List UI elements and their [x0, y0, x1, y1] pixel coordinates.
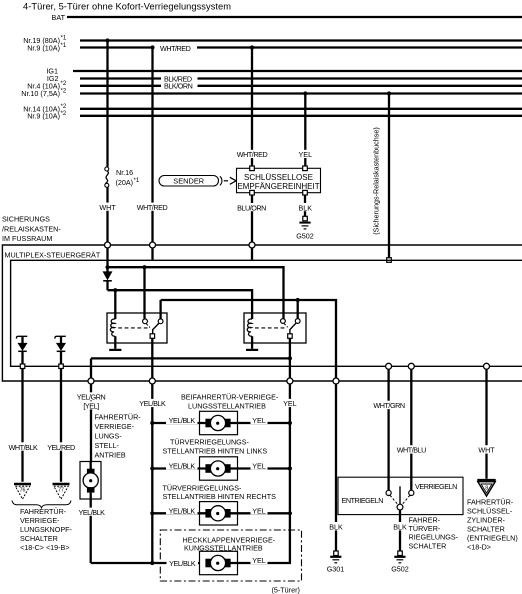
svg-text:BLK/ORN: BLK/ORN [164, 82, 193, 91]
wire H5 to YEL/GRN exit [91, 357, 290, 359]
wire WHT vertical from Nr.19 bus [106, 41, 108, 167]
node Nr.14 (10A)*2 bus [80, 108, 522, 110]
actuator passenger door motor [200, 411, 238, 434]
svg-text:YEL/RED: YEL/RED [47, 443, 75, 452]
svg-text:Nr.10 (7,5A): Nr.10 (7,5A) [21, 89, 60, 98]
wire to rear left actuator [152, 467, 205, 469]
svg-text:VERRIEGELN: VERRIEGELN [415, 482, 457, 491]
door lock switch box FAHRERTUERVERRIEGELUNGSSCHALTER [338, 477, 463, 514]
svg-text:FAHRERTÜR-: FAHRERTÜR- [95, 413, 142, 422]
wire relay2 contact B drop [297, 300, 299, 319]
svg-text:76: 76 [20, 488, 26, 494]
wire BLK to G502 (switch) [399, 510, 401, 551]
wire relay1 coil drop [114, 290, 116, 319]
svg-text:*2: *2 [61, 81, 67, 87]
relay K1 coil [110, 319, 115, 336]
relay K1 coil ground bar [109, 349, 121, 351]
svg-text:8: 8 [485, 485, 488, 491]
svg-text:WHT/BLU: WHT/BLU [397, 446, 426, 455]
relay K2 coil ground bar [246, 349, 258, 351]
wire WHT/RED to receiver unit [251, 48, 253, 168]
svg-text:IM FUSSRAUM: IM FUSSRAUM [2, 234, 52, 243]
wire WHT to key cylinder switch [485, 369, 487, 479]
svg-text:FAHRERTÜR-: FAHRERTÜR- [20, 507, 67, 516]
wire WHT/BLK from diode D2 to knob switch [21, 369, 23, 482]
svg-text:TÜRVERRIEGELUNGS-: TÜRVERRIEGELUNGS- [170, 438, 250, 447]
svg-text:YEL: YEL [252, 416, 266, 425]
wire H1 +12V rail to relay contacts [108, 267, 284, 318]
svg-text:VERRIEGE-: VERRIEGE- [20, 516, 60, 525]
ground G502 (receiver) [303, 216, 308, 221]
wire WHT/GRN to door lock switch [387, 369, 389, 490]
diode D3 [55, 336, 66, 338]
svg-text:BAT: BAT [52, 13, 66, 22]
svg-text:WHT/GRN: WHT/GRN [373, 401, 404, 410]
actuator tailgate motor [200, 551, 238, 574]
wire BLK to G301 [335, 384, 337, 551]
svg-text:WHT/BLK: WHT/BLK [9, 443, 38, 452]
svg-text:(Sicherungs-Relaiskastenbuchse: (Sicherungs-Relaiskastenbuchse) [372, 127, 381, 234]
svg-text:SCHLÜSSELLOSE: SCHLÜSSELLOSE [244, 173, 313, 182]
relay K2 switch arm [290, 323, 296, 334]
svg-text:ANTRIEB: ANTRIEB [95, 451, 126, 460]
svg-text:<18-D>: <18-D> [467, 543, 491, 552]
svg-text:YEL/BLK: YEL/BLK [169, 506, 196, 515]
actuator rear right motor [200, 502, 238, 525]
svg-text:*2: *2 [61, 111, 67, 117]
switch common [397, 504, 403, 510]
switch arm neutral [399, 486, 401, 504]
svg-text:/RELAISKASTEN-: /RELAISKASTEN- [2, 224, 61, 233]
relay K2 box [244, 313, 306, 343]
svg-text:(20A): (20A) [116, 178, 134, 187]
wire WHT/RED vertical left [151, 48, 153, 243]
svg-text:*2: *2 [61, 89, 67, 95]
node IG1 bus [73, 70, 522, 72]
wire H4 ground rail [161, 300, 336, 378]
wire YEL/GRN [YEL] to driver door actuator [90, 384, 92, 462]
relay K1 box [107, 313, 167, 343]
wire YEL/BLK bus [151, 384, 153, 563]
svg-text:SICHERUNGS: SICHERUNGS [2, 215, 50, 224]
node Nr.19 (80A)*1 bus [80, 39, 522, 41]
svg-text:RIEGELUNGS-: RIEGELUNGS- [409, 533, 459, 542]
svg-text:G502: G502 [391, 565, 409, 574]
svg-text:*2: *2 [61, 104, 67, 110]
svg-text:STELLANTRIEB HINTEN LINKS: STELLANTRIEB HINTEN LINKS [163, 446, 268, 455]
connector circles on outer box bottom edge [88, 378, 94, 384]
node Nr.4 (10A)*2 bus [80, 85, 522, 87]
wire WHT into unit, node to diode [106, 248, 108, 272]
connector triangle 8 key cylinder [477, 479, 495, 482]
relay K2 contacts [281, 319, 286, 324]
relay K2 coil [247, 319, 252, 336]
wire YEL from Nr.10 bus to receiver unit [304, 94, 306, 168]
relay K1 contacts [143, 319, 148, 324]
svg-text:SENDER: SENDER [173, 177, 204, 186]
svg-text:BEIFAHRERTÜR-VERRIEGE-: BEIFAHRERTÜR-VERRIEGE- [181, 393, 279, 402]
svg-text:WHT/RED: WHT/RED [137, 203, 168, 212]
svg-text:(ENTRIEGELN): (ENTRIEGELN) [467, 534, 518, 543]
connector triangle 77 [53, 483, 70, 486]
actuator rear left motor [200, 457, 238, 480]
svg-text:STELLANTRIEB HINTEN RECHTS: STELLANTRIEB HINTEN RECHTS [163, 492, 277, 501]
wire BLK to G502 [304, 195, 306, 216]
svg-text:SCHLÜSSEL-: SCHLÜSSEL- [467, 507, 513, 516]
transmitter SENDER [159, 176, 219, 187]
wire YEL bus [230, 384, 290, 563]
relay K1 switch arm [153, 323, 159, 333]
svg-text:Nr.16: Nr.16 [116, 168, 133, 177]
pin square at inner box top [387, 258, 392, 263]
svg-text:*1: *1 [61, 43, 67, 49]
svg-text:WHT/RED: WHT/RED [160, 44, 191, 53]
svg-text:YEL: YEL [252, 462, 266, 471]
node Nr.9 (10A)*2 bus [80, 115, 522, 117]
ground G502 (switch) [398, 551, 403, 556]
node BAT bus [67, 16, 522, 18]
svg-text:YEL: YEL [283, 399, 297, 408]
svg-text:YEL/BLK: YEL/BLK [169, 462, 196, 471]
svg-text:Nr.9 (10A): Nr.9 (10A) [27, 44, 60, 53]
svg-text:LUNGS-: LUNGS- [95, 432, 123, 441]
svg-text:FAHRER-: FAHRER- [409, 515, 441, 524]
wire (Sicherungs-Relaiskastenbuchse) from Nr.10 bus [388, 94, 390, 259]
svg-text:SCHALTER: SCHALTER [20, 534, 58, 543]
wire stubs into inner box [153, 248, 253, 260]
svg-text:VERRIEGE-: VERRIEGE- [95, 422, 135, 431]
label YEL tailgate [251, 556, 268, 564]
svg-text:4-Türer, 5-Türer ohne Kofort-V: 4-Türer, 5-Türer ohne Kofort-Verriegelun… [23, 2, 231, 12]
node Nr.9 (10A)*1 bus [80, 46, 522, 48]
node IG2 bus [80, 77, 522, 79]
relay K1 common pin [150, 334, 155, 339]
svg-text:BLK: BLK [329, 523, 343, 532]
wire rear left actuator right YEL [230, 467, 290, 469]
svg-text:YEL/BLK: YEL/BLK [169, 416, 196, 425]
wire WHT/BLU to door lock switch [410, 369, 412, 490]
svg-text:BLK: BLK [299, 203, 313, 212]
connector circles on inner box bottom edge [386, 363, 392, 369]
ground G301 [334, 551, 339, 556]
diode D1 [103, 272, 112, 280]
svg-text:YEL: YEL [252, 556, 266, 565]
fuse Nr.16 (20A)*1 [105, 167, 109, 171]
wire WHT continues to multiplex unit [106, 187, 108, 242]
svg-text:BLK: BLK [393, 523, 407, 532]
svg-text:LUNGSSTELLANTRIEB: LUNGSSTELLANTRIEB [188, 401, 266, 410]
svg-text:*1: *1 [61, 36, 67, 42]
svg-text:BLU/ORN: BLU/ORN [237, 203, 266, 212]
svg-text:WHT/RED: WHT/RED [237, 150, 268, 159]
svg-text:G301: G301 [327, 565, 345, 574]
svg-text:ENTRIEGELN: ENTRIEGELN [342, 496, 384, 505]
wire to rear right actuator [152, 512, 205, 514]
svg-text:<18-C> <19-B>: <18-C> <19-B> [20, 543, 70, 552]
svg-text:YEL/BLK: YEL/BLK [169, 559, 196, 568]
brace under knob switch connectors [12, 501, 71, 508]
svg-text:STELL-: STELL- [95, 441, 120, 450]
wire relay1 contact B to H4 [159, 300, 161, 319]
switch contacts [386, 490, 391, 495]
actuator driver door (vertical motor) [80, 462, 101, 500]
dashed box 5-Tuerer tailgate [160, 530, 301, 581]
svg-text:ZYLINDER-: ZYLINDER- [467, 516, 506, 525]
svg-text:[YEL]: [YEL] [83, 401, 99, 410]
wire relay2 common down to YEL exit [289, 338, 291, 378]
svg-text:SCHALTER: SCHALTER [467, 525, 505, 534]
svg-text:G502: G502 [296, 232, 314, 241]
svg-text:YEL: YEL [252, 506, 266, 515]
node Nr.10 (7,5A)*2 bus [80, 92, 522, 94]
multiplex inner box [11, 260, 522, 366]
pin squares receiver [250, 166, 255, 171]
wire driver actuator to tailgate row [91, 562, 200, 564]
svg-text:YEL/BLK: YEL/BLK [78, 508, 105, 517]
wire H3 coil supply rail from diode [108, 290, 253, 319]
diode D2 [16, 336, 27, 338]
svg-text:TÜRVERRIEGELUNGS-: TÜRVERRIEGELUNGS- [163, 484, 243, 493]
svg-text:WHT: WHT [99, 203, 116, 212]
label HECKKLAPPENVERRIEGE-KUNGSSTELLANTRIEB [180, 534, 286, 552]
svg-text:MULTIPLEX-STEUERGERÄT: MULTIPLEX-STEUERGERÄT [5, 251, 101, 260]
svg-text:YEL/BLK: YEL/BLK [139, 399, 166, 408]
wire YEL/RED from diode D3 to knob switch [60, 369, 62, 482]
wire relay1 contact A drop [143, 267, 145, 318]
svg-text:LUNGSKNOPF-: LUNGSKNOPF- [20, 525, 73, 534]
svg-text:EMPFÄNGEREINHEIT: EMPFÄNGEREINHEIT [237, 182, 319, 191]
svg-text:FAHRERTÜR-: FAHRERTÜR- [467, 498, 514, 507]
svg-text:SCHALTER: SCHALTER [409, 541, 447, 550]
svg-text:Nr.9 (10A): Nr.9 (10A) [27, 111, 60, 120]
multiplex control unit outer box [2, 245, 522, 381]
svg-text:(5-Türer): (5-Türer) [272, 586, 300, 594]
wire relay1 common to YEL/BLK exit [151, 338, 153, 378]
svg-text:YEL/GRN: YEL/GRN [77, 393, 106, 402]
svg-text:77: 77 [58, 488, 64, 494]
wire rear right actuator right YEL [230, 512, 290, 514]
connector triangle 76 [14, 483, 31, 486]
relay K2 common pin [288, 334, 293, 339]
wire passenger actuator right YEL [230, 422, 290, 424]
wire BLU/ORN [251, 195, 253, 242]
wire to passenger actuator left [152, 422, 205, 424]
connector circles on outer box top edge [105, 242, 111, 248]
label YEL/BLK tailgate [167, 559, 199, 567]
svg-text:YEL: YEL [299, 150, 313, 159]
svg-text:*1: *1 [134, 178, 140, 184]
svg-text:TÜRVER-: TÜRVER- [409, 524, 441, 533]
receiver unit SCHLUESSELLOSE EMPFAENGEREINHEIT [237, 168, 321, 192]
svg-text:WHT: WHT [478, 446, 495, 455]
